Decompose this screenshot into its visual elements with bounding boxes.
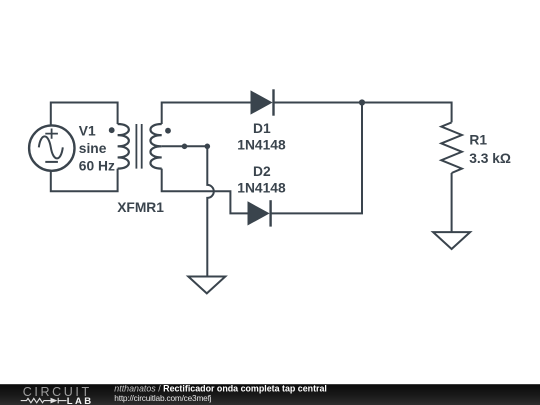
node center tap dot 1 — [182, 144, 188, 150]
wire secondary bottom to D2 anode — [162, 169, 248, 214]
wire secondary top to D1 anode — [162, 103, 251, 125]
wire D1 cathode to node A — [274, 102, 363, 104]
svg-text:http://circuitlab.com/ce3mefj: http://circuitlab.com/ce3mefj — [114, 393, 211, 403]
label R1 3.3 kOhm — [469, 133, 511, 166]
voltage source V1 — [29, 125, 74, 170]
wire V1 top lead to transformer primary top — [51, 103, 118, 126]
wire D2 cathode to node A — [271, 103, 362, 214]
wire node A to R1 top — [362, 103, 452, 123]
svg-text:V1: V1 — [79, 123, 96, 138]
label V1 sine 60 Hz — [79, 123, 115, 173]
wire V1 bottom lead to transformer primary bottom — [51, 169, 118, 192]
wire center tap — [162, 145, 208, 147]
svg-text:1N4148: 1N4148 — [237, 138, 286, 153]
transformer XFMR1 core — [136, 124, 141, 169]
svg-text:3.3 kΩ: 3.3 kΩ — [469, 151, 511, 166]
footer logo wire with resistor and diode — [21, 398, 67, 404]
wire R1 bottom to ground — [451, 173, 453, 232]
footer bar — [0, 384, 540, 405]
label D1 1N4148 — [237, 121, 286, 153]
svg-text:R1: R1 — [469, 133, 487, 148]
svg-text:D2: D2 — [253, 164, 271, 179]
label D2 1N4148 — [237, 164, 286, 196]
ground (below R1) — [433, 232, 470, 249]
node A junction dot — [359, 99, 365, 105]
svg-text:60 Hz: 60 Hz — [79, 159, 115, 174]
diode D1 — [251, 89, 274, 115]
svg-text:XFMR1: XFMR1 — [117, 200, 164, 215]
transformer XFMR1 primary phase dot — [109, 127, 115, 133]
transformer XFMR1 secondary coil — [150, 124, 161, 169]
svg-text:sine: sine — [79, 141, 107, 156]
resistor R1 — [441, 122, 462, 173]
svg-text:1N4148: 1N4148 — [237, 181, 286, 196]
svg-text:LAB: LAB — [67, 396, 94, 405]
node center tap dot 2 — [205, 144, 211, 150]
transformer XFMR1 primary coil — [118, 124, 129, 169]
wire center tap down with hop to ground — [207, 146, 214, 276]
transformer XFMR1 secondary phase dot — [165, 128, 171, 134]
diode D2 — [248, 200, 271, 226]
svg-text:D1: D1 — [253, 121, 271, 136]
ground (center tap) — [188, 277, 225, 294]
